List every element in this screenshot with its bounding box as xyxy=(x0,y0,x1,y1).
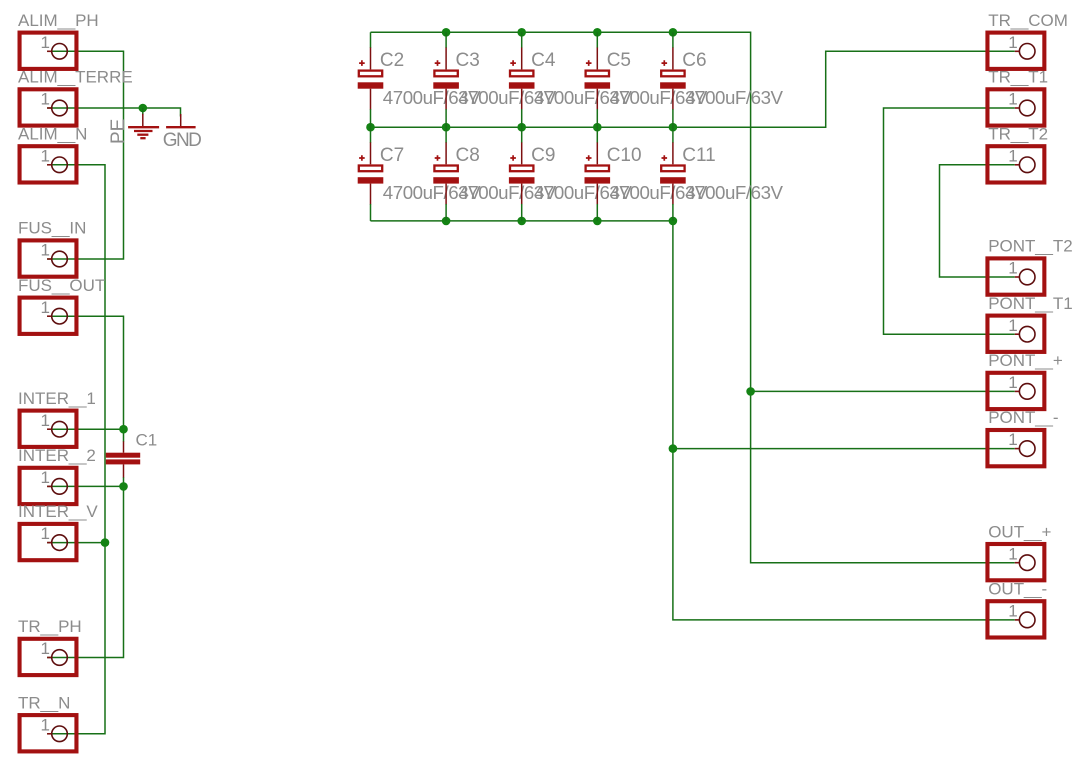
svg-text:1: 1 xyxy=(41,298,50,317)
ALIM_TERRE body xyxy=(20,89,77,125)
TR_COM body xyxy=(987,33,1044,69)
C7 bottom plate xyxy=(358,177,384,183)
svg-text:INTER_V: INTER_V xyxy=(18,502,98,521)
C9 bottom lead xyxy=(521,184,523,205)
connector PONT_- xyxy=(987,408,1058,466)
PONT_+ pin stub xyxy=(1015,390,1019,392)
C5 top plate xyxy=(586,71,609,77)
capacitor C8 (polarized, 4700uF/63V) xyxy=(433,127,556,221)
svg-text:TR_N: TR_N xyxy=(18,693,70,712)
TR_T2 body xyxy=(987,146,1044,182)
junction bottom bus C9 xyxy=(517,217,526,226)
C2 top plate xyxy=(359,71,382,77)
wire branch to PONT_+ pin xyxy=(751,390,1015,392)
svg-text:TR_COM: TR_COM xyxy=(988,11,1068,30)
C11 top plate xyxy=(661,166,684,172)
C4 plus sign xyxy=(510,60,516,66)
svg-text:1: 1 xyxy=(1008,430,1017,449)
TR_T2 pin stub xyxy=(1015,164,1019,166)
C6 bottom lead xyxy=(672,89,674,110)
C11 bottom plate xyxy=(660,177,686,183)
svg-text:1: 1 xyxy=(41,468,50,487)
connector PONT_+ xyxy=(987,351,1062,409)
INTER_V body xyxy=(20,524,77,560)
svg-text:1: 1 xyxy=(1008,90,1017,109)
C9 top lead xyxy=(521,127,523,143)
connector INTER_1 xyxy=(18,389,96,447)
C4 top plate xyxy=(510,71,533,77)
svg-text:C6: C6 xyxy=(682,50,706,71)
svg-text:C10: C10 xyxy=(607,145,642,166)
svg-text:ALIM_N: ALIM_N xyxy=(18,124,87,143)
svg-text:1: 1 xyxy=(1008,544,1017,563)
C8 top plate xyxy=(434,166,457,172)
connector PONT_T1 xyxy=(987,294,1072,352)
C6 top plate xyxy=(661,71,684,77)
TR_PH body xyxy=(20,639,77,675)
TR_T1 pin hole xyxy=(1019,100,1035,116)
wire net V+: capacitor top bus to PONT_+ and OUT_+ xyxy=(371,32,1015,562)
INTER_V pin hole xyxy=(52,535,68,551)
connector TR_T1 xyxy=(987,68,1048,126)
wire net N$4: FUS_OUT pin down to C1 top xyxy=(47,316,123,442)
capacitor C9 (polarized, 4700uF/63V) xyxy=(509,127,632,221)
C10 top plate xyxy=(586,166,609,172)
connector ALIM_TERRE xyxy=(18,68,133,126)
capacitor C5 (polarized, 4700uF/63V) xyxy=(585,32,708,127)
C7 top plate xyxy=(359,166,382,172)
C1 bottom lead xyxy=(123,464,125,477)
wire branch to INTER_V pin xyxy=(47,542,105,544)
wire net T2: TR_T2 pin to PONT_T2 pin xyxy=(940,165,1015,277)
C5 bottom lead xyxy=(596,89,598,110)
C10 bottom lead xyxy=(596,184,598,205)
svg-text:C9: C9 xyxy=(531,145,555,166)
svg-text:1: 1 xyxy=(1008,33,1017,52)
svg-text:PONT_T1: PONT_T1 xyxy=(988,294,1072,313)
C10 bottom plate xyxy=(585,177,611,183)
PONT_+ pin hole xyxy=(1019,384,1035,400)
C8 top lead xyxy=(445,127,447,143)
OUT_- pin stub xyxy=(1015,619,1019,621)
svg-text:C5: C5 xyxy=(607,50,631,71)
svg-text:1: 1 xyxy=(41,33,50,52)
capacitor C11 (polarized, 4700uF/63V) xyxy=(660,127,783,221)
C9 plus sign xyxy=(510,155,516,161)
C9 top plate xyxy=(510,166,533,172)
ALIM_PH body xyxy=(20,33,77,69)
PONT_T1 body xyxy=(987,316,1044,352)
svg-text:OUT_-: OUT_- xyxy=(988,580,1047,599)
svg-text:TR_T2: TR_T2 xyxy=(988,124,1048,143)
junction PONT_+ branch xyxy=(746,387,755,396)
svg-text:1: 1 xyxy=(41,411,50,430)
junction bottom bus C11 xyxy=(669,217,678,226)
svg-text:C7: C7 xyxy=(380,145,404,166)
C1 top plate xyxy=(106,453,140,458)
wire net N$3: ALIM_N pin down to TR_N pin xyxy=(47,165,105,734)
svg-text:C1: C1 xyxy=(136,431,158,450)
connector INTER_2 xyxy=(18,446,96,504)
junction top bus C4 xyxy=(517,28,526,37)
svg-text:C11: C11 xyxy=(682,145,715,166)
junction middle bus C6/C11 xyxy=(669,123,678,132)
connector OUT_- xyxy=(987,580,1047,638)
TR_N pin stub xyxy=(47,733,51,735)
C4 bottom plate xyxy=(509,82,535,88)
PONT_T1 pin hole xyxy=(1019,326,1035,342)
INTER_1 body xyxy=(20,411,77,447)
svg-text:4700uF/63V: 4700uF/63V xyxy=(685,87,783,108)
PONT_- body xyxy=(987,430,1044,466)
C2 bottom lead xyxy=(370,89,372,110)
svg-text:INTER_2: INTER_2 xyxy=(18,446,96,465)
connector FUS_IN xyxy=(18,219,86,277)
connector ALIM_PH xyxy=(18,11,99,69)
connector TR_T2 xyxy=(987,124,1048,182)
PONT_- pin stub xyxy=(1015,448,1019,450)
capacitor C1 xyxy=(106,431,157,478)
svg-text:C4: C4 xyxy=(531,50,556,71)
INTER_1 pin hole xyxy=(52,421,68,437)
C10 top lead xyxy=(596,127,598,143)
svg-text:1: 1 xyxy=(41,639,50,658)
junction middle bus C2/C7 xyxy=(366,123,375,132)
svg-text:PONT_T2: PONT_T2 xyxy=(988,237,1072,256)
wire net COM: capacitor middle bus to TR_COM pin xyxy=(371,51,1015,127)
C2 top lead xyxy=(370,32,372,48)
wire branch to INTER_1 pin xyxy=(47,428,123,430)
C5 plus sign xyxy=(586,60,592,66)
ground GND symbol xyxy=(166,114,196,127)
C3 top plate xyxy=(434,71,457,77)
PONT_- pin hole xyxy=(1019,441,1035,457)
ALIM_N pin stub xyxy=(47,164,51,166)
C2 plus sign xyxy=(359,60,365,66)
ALIM_PH pin stub xyxy=(47,50,51,52)
svg-text:PONT_+: PONT_+ xyxy=(988,351,1063,370)
FUS_OUT pin stub xyxy=(47,315,51,317)
junction middle bus C5/C10 xyxy=(593,123,602,132)
C8 bottom plate xyxy=(433,177,459,183)
svg-text:C3: C3 xyxy=(456,50,480,71)
C3 top lead xyxy=(445,32,447,48)
ground PE (earth symbol) xyxy=(128,108,159,138)
C3 bottom lead xyxy=(445,89,447,110)
INTER_2 body xyxy=(20,468,77,504)
INTER_1 pin stub xyxy=(47,428,51,430)
connector PONT_T2 xyxy=(987,237,1072,295)
FUS_IN pin stub xyxy=(47,258,51,260)
OUT_- body xyxy=(987,601,1044,637)
FUS_IN pin hole xyxy=(52,251,68,267)
junction PONT_- branch xyxy=(669,444,678,453)
svg-text:ALIM_PH: ALIM_PH xyxy=(18,11,99,30)
TR_COM pin stub xyxy=(1015,50,1019,52)
junction top bus C5 xyxy=(593,28,602,37)
TR_T2 pin hole xyxy=(1019,157,1035,173)
capacitor C2 (polarized, 4700uF/63V) xyxy=(358,32,481,127)
connector INTER_V xyxy=(18,502,98,560)
svg-text:C8: C8 xyxy=(456,145,480,166)
PONT_+ body xyxy=(987,373,1044,409)
C10 plus sign xyxy=(586,155,592,161)
capacitor C4 (polarized, 4700uF/63V) xyxy=(509,32,632,127)
svg-text:TR_T1: TR_T1 xyxy=(988,68,1048,87)
C11 plus sign xyxy=(662,155,668,161)
ALIM_N pin hole xyxy=(52,157,68,173)
C6 top lead xyxy=(672,32,674,48)
ALIM_PH pin hole xyxy=(52,44,68,60)
svg-text:1: 1 xyxy=(41,241,50,260)
connector FUS_OUT xyxy=(18,276,105,334)
C7 plus sign xyxy=(359,155,365,161)
PONT_T2 pin stub xyxy=(1015,276,1019,278)
junction INTER_1 branch xyxy=(119,425,128,434)
wire net PE: ALIM_TERRE pin to ground symbols xyxy=(47,108,180,117)
wire net V-: capacitor bottom bus to PONT_- and OUT_- xyxy=(371,221,1015,620)
svg-text:GND: GND xyxy=(163,130,202,151)
FUS_OUT pin hole xyxy=(52,308,68,324)
capacitor C7 (polarized, 4700uF/63V) xyxy=(358,127,481,221)
C5 bottom plate xyxy=(585,82,611,88)
svg-text:1: 1 xyxy=(41,715,50,734)
wire branch to PONT_- pin xyxy=(673,448,1015,450)
junction INTER_2 branch xyxy=(119,482,128,491)
connector OUT_+ xyxy=(987,522,1051,580)
C9 bottom plate xyxy=(509,177,535,183)
FUS_IN body xyxy=(20,240,77,276)
C4 top lead xyxy=(521,32,523,48)
svg-text:PE: PE xyxy=(108,119,129,144)
connector TR_PH xyxy=(18,617,82,675)
wire net N$1: ALIM_PH pin to FUS_IN pin xyxy=(47,51,123,259)
svg-text:ALIM_TERRE: ALIM_TERRE xyxy=(18,68,133,87)
TR_T1 body xyxy=(987,89,1044,125)
svg-text:1: 1 xyxy=(1008,316,1017,335)
svg-text:1: 1 xyxy=(1008,373,1017,392)
C6 plus sign xyxy=(662,60,668,66)
INTER_V pin stub xyxy=(47,542,51,544)
wire net T1: TR_T1 pin to PONT_T1 pin xyxy=(884,108,1015,334)
PONT_T1 pin stub xyxy=(1015,333,1019,335)
junction net PE at ground xyxy=(139,104,148,113)
capacitor C3 (polarized, 4700uF/63V) xyxy=(433,32,556,127)
TR_PH pin hole xyxy=(52,650,68,666)
OUT_+ pin hole xyxy=(1019,555,1035,571)
C6 bottom plate xyxy=(660,82,686,88)
C11 top lead xyxy=(672,127,674,143)
C3 bottom plate xyxy=(433,82,459,88)
capacitor C6 (polarized, 4700uF/63V) xyxy=(660,32,783,127)
capacitor C10 (polarized, 4700uF/63V) xyxy=(585,127,708,221)
junction middle bus C3/C8 xyxy=(442,123,451,132)
svg-text:FUS_IN: FUS_IN xyxy=(18,219,86,238)
C4 bottom lead xyxy=(521,89,523,110)
OUT_- pin hole xyxy=(1019,612,1035,628)
TR_COM pin hole xyxy=(1019,44,1035,60)
junction bottom bus C10 xyxy=(593,217,602,226)
C1 top lead xyxy=(123,441,125,452)
svg-text:1: 1 xyxy=(1008,602,1017,621)
C3 plus sign xyxy=(435,60,441,66)
junction top bus C3 xyxy=(442,28,451,37)
ALIM_TERRE pin hole xyxy=(52,100,68,116)
wire branch to INTER_2 pin xyxy=(47,485,123,487)
svg-text:1: 1 xyxy=(1008,259,1017,278)
svg-text:TR_PH: TR_PH xyxy=(18,617,82,636)
TR_N pin hole xyxy=(52,726,68,742)
svg-text:INTER_1: INTER_1 xyxy=(18,389,96,408)
connector ALIM_N xyxy=(18,124,87,182)
svg-text:1: 1 xyxy=(41,90,50,109)
junction INTER_V branch xyxy=(101,538,110,547)
TR_PH pin stub xyxy=(47,657,51,659)
junction middle bus C4/C9 xyxy=(517,123,526,132)
TR_N body xyxy=(20,715,77,751)
svg-text:PONT_-: PONT_- xyxy=(988,408,1058,427)
svg-text:FUS_OUT: FUS_OUT xyxy=(18,276,105,295)
INTER_2 pin hole xyxy=(52,479,68,495)
ALIM_TERRE pin stub xyxy=(47,107,51,109)
C7 bottom lead xyxy=(370,184,372,205)
C5 top lead xyxy=(596,32,598,48)
wire net N$5: C1 bottom down to TR_PH pin xyxy=(47,477,123,658)
svg-text:C2: C2 xyxy=(380,50,404,71)
svg-text:1: 1 xyxy=(41,146,50,165)
PONT_T2 body xyxy=(987,258,1044,294)
connector TR_N xyxy=(18,693,76,751)
svg-text:1: 1 xyxy=(1008,146,1017,165)
OUT_+ pin stub xyxy=(1015,562,1019,564)
ALIM_N body xyxy=(20,146,77,182)
C2 bottom plate xyxy=(358,82,384,88)
svg-text:1: 1 xyxy=(41,524,50,543)
C8 bottom lead xyxy=(445,184,447,205)
svg-text:4700uF/63V: 4700uF/63V xyxy=(685,182,783,203)
PONT_T2 pin hole xyxy=(1019,269,1035,285)
C1 bottom plate xyxy=(106,459,140,464)
junction bottom bus C8 xyxy=(442,217,451,226)
svg-text:OUT_+: OUT_+ xyxy=(988,522,1051,541)
connector TR_COM xyxy=(987,11,1067,69)
C8 plus sign xyxy=(435,155,441,161)
C7 top lead xyxy=(370,127,372,143)
C11 bottom lead xyxy=(672,184,674,205)
FUS_OUT body xyxy=(20,298,77,334)
TR_T1 pin stub xyxy=(1015,107,1019,109)
junction top bus C6 xyxy=(669,28,678,37)
INTER_2 pin stub xyxy=(47,485,51,487)
OUT_+ body xyxy=(987,544,1044,580)
